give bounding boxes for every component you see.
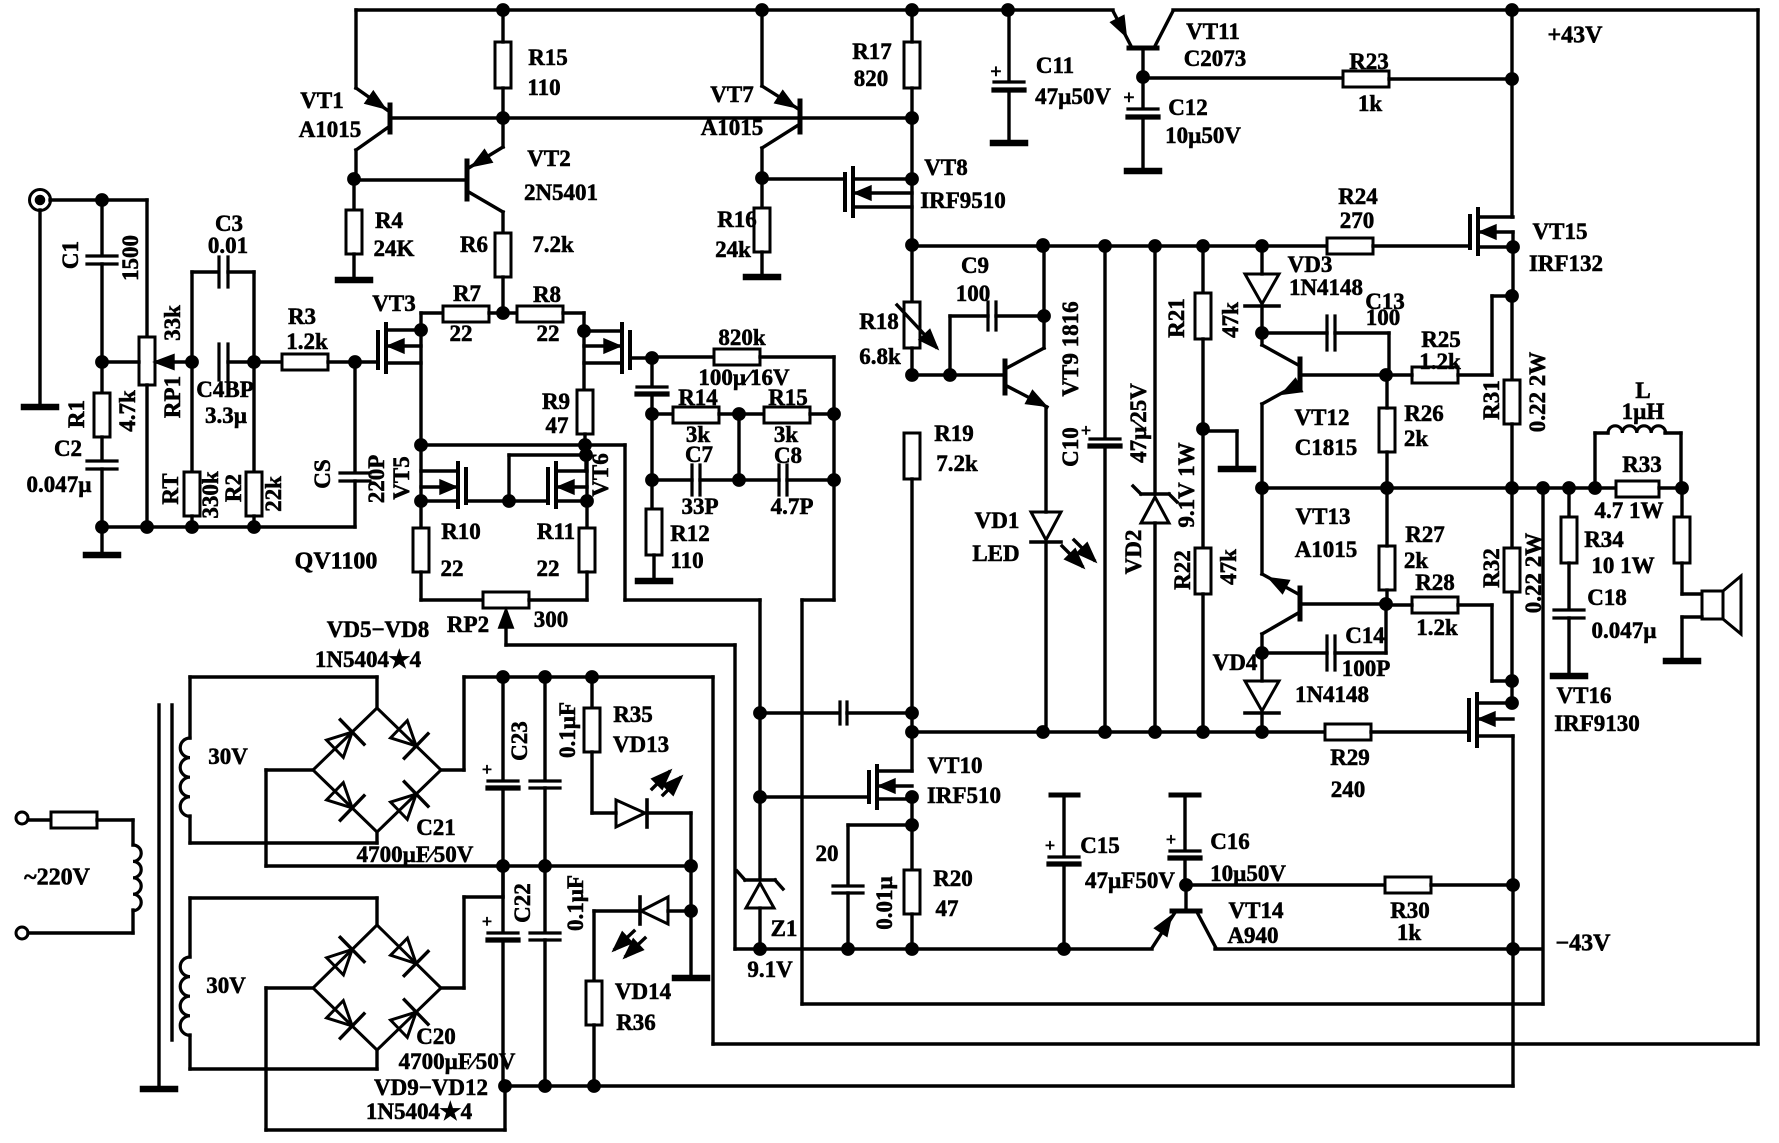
arrow VT16 [1481,714,1494,725]
arrow VT14 [1156,918,1170,935]
wire 0.01u drop [846,825,849,884]
gate bar VT3 [376,332,380,368]
svg-text:10µ50V: 10µ50V [1210,861,1286,886]
svg-text:LED: LED [972,541,1019,566]
junction [734,409,744,419]
wiper arrow RP1 [157,356,173,368]
junction [734,475,744,485]
wire gate VT3 [355,360,378,363]
wire bridge2 minus run [266,1128,505,1131]
svg-text:R4: R4 [375,208,404,233]
bridge rectifier VD9-VD12 diode TR [387,935,428,976]
arrow VT2 [474,151,491,165]
base bar VT9 [1003,361,1008,393]
wire VD13 anode [592,811,616,814]
base bar VT2 [465,161,470,199]
junction [187,357,197,367]
resistor R15b [764,407,810,423]
svg-text:20: 20 [816,841,839,866]
resistor R14 [673,407,719,423]
junction [757,173,767,183]
svg-text:C4BP: C4BP [196,377,254,402]
capacitor C3 [217,257,220,287]
svg-text:R6: R6 [460,232,488,257]
wire top +43V rail right [1173,8,1758,11]
capacitor C12 [1128,107,1158,110]
arrow VT9 [1027,392,1044,405]
wire VT13 emitter up [1260,488,1263,574]
ground C12 [1127,168,1159,175]
wire coupling right [847,711,912,714]
svg-text:VT3: VT3 [372,291,415,316]
wire VT16 drain [1510,681,1513,703]
base bar VT11 [1129,46,1157,51]
wire R28 right [1458,603,1492,606]
wire coupling left [760,711,837,714]
junction [1039,311,1049,321]
svg-text:1.2k: 1.2k [1419,349,1461,374]
resistor R28 [1412,597,1458,613]
wire VD4 top [1260,653,1263,681]
wire fb jog [832,480,835,600]
wire gnd column [689,813,692,975]
wire top +43V drive rail left [356,8,1113,11]
junction [1257,727,1267,737]
junction [579,326,589,336]
svg-text:~220V: ~220V [24,864,90,890]
wire +43V right border [1756,10,1759,1044]
svg-text:Z1: Z1 [771,916,798,941]
junction [1100,727,1110,737]
junction [1038,241,1048,251]
resistor R9 [577,390,593,434]
led arrow VD14 a [615,934,631,949]
junction [580,440,590,450]
junction [582,496,592,506]
svg-text:RP2: RP2 [447,612,489,637]
wire C12 top [1141,77,1144,107]
resistor R8 [517,306,563,322]
svg-text:47k: 47k [1218,302,1243,338]
svg-text:C16: C16 [1210,829,1250,854]
svg-text:+43V: +43V [1547,22,1603,48]
svg-text:VD9−VD12: VD9−VD12 [374,1075,488,1100]
wire C20 bottom [501,940,504,1086]
wire R28 drop [1490,605,1493,681]
channel bar VT5 [456,463,460,507]
wire C4 right leg [252,272,255,362]
led arrow VD14 b [626,941,642,956]
wire mid column [737,414,740,480]
capacitor C14 [1325,636,1328,670]
junction [498,113,508,123]
wire node to R3 [254,360,282,363]
resistor R32 [1504,548,1520,592]
wire RT bottom [190,516,193,527]
arrow VT10 [881,781,894,792]
svg-text:4.7P: 4.7P [771,494,814,519]
wire spk bottom [1682,615,1702,618]
wire R25 left [1386,373,1412,376]
wire R31 bottom [1510,424,1513,488]
wire R4 top [352,180,355,210]
wire 820k right [760,355,834,358]
wire fuse left [28,818,51,821]
junction [843,944,853,954]
wire sec2 top rail [190,896,377,899]
wire C10 top [1103,246,1106,437]
junction [498,861,508,871]
junction [647,353,657,363]
svg-text:24k: 24k [715,237,751,262]
svg-text:VD3: VD3 [1288,252,1333,277]
resistor R22 [1195,548,1211,594]
gate bar VT10 [867,772,871,802]
wire bridge1 bottom feed [375,832,378,843]
base bar VT1 [388,105,393,132]
diode VD13 [616,800,645,827]
wire R8 right lead [563,311,584,314]
junction [1198,241,1208,251]
stub VT4 drain [584,329,622,332]
svg-text:R33: R33 [1622,452,1662,477]
svg-text:100P: 100P [1342,656,1391,681]
wire C22 top [543,866,546,931]
junction [907,792,917,802]
wire RP2 left [421,598,483,601]
wire VT7 emitter [762,124,800,148]
wire 0.01u bottom [846,893,849,949]
wire VT9 collector [1005,348,1044,369]
junction [1150,241,1160,251]
ground core [143,1086,175,1093]
wire VD1 top [1044,407,1047,512]
led arrow VD14 b [626,938,645,956]
resistor R36 [586,981,602,1025]
wire R30 right [1431,883,1513,886]
wiper arrow RP2 [500,611,512,627]
wire signal node to pot [102,360,139,363]
stub VT8 mid [853,191,912,194]
arrow VT6 [560,482,573,493]
svg-text:R23: R23 [1349,49,1389,74]
svg-text:1N4148: 1N4148 [1289,275,1363,300]
wire C2 down [100,469,103,527]
junction [1038,727,1048,737]
stub VT3 source [386,361,421,364]
wire spk gnd drop [1680,617,1683,657]
stub VT6 mid [556,485,587,488]
wire core right [170,705,173,1040]
svg-text:R32: R32 [1479,548,1504,588]
bridge rectifier VD9-VD12 diode TL [323,937,364,978]
resistor R4 [346,210,362,254]
transistor VT7 [762,86,800,110]
capacitor C20 [488,931,518,934]
svg-text:C7: C7 [685,442,713,467]
junction [686,906,696,916]
wire mirror gate drop [507,455,510,501]
wire fuse right [97,818,133,821]
junction [829,409,839,419]
diode VD4 [1245,681,1279,711]
resistor R26 [1379,408,1395,452]
zener VD2 [1141,492,1169,496]
svg-text:C15: C15 [1080,833,1120,858]
wire 100u bottom [650,394,653,414]
svg-text:IRF9510: IRF9510 [920,188,1006,213]
wire sec1 bottom [190,841,377,844]
wire R2 top [252,362,255,472]
gate bar VT4 [628,332,632,368]
svg-text:110: 110 [527,75,560,100]
junction [97,522,107,532]
wire R32 top [1510,488,1513,548]
junction [1590,483,1600,493]
svg-text:47: 47 [936,896,959,921]
wire VT12 emitter down [1260,404,1263,488]
wire VT8 column [910,118,913,245]
resistor R27 [1379,546,1395,590]
svg-text:R24: R24 [1338,184,1378,209]
svg-text:47µ∕25V: 47µ∕25V [1126,383,1151,463]
wire C16 lower [1183,858,1186,885]
junction [416,496,426,506]
junction [1257,483,1267,493]
wire VT9 collector up [1042,245,1045,348]
wire cascode out drop [623,445,626,600]
wire R29 to VT16 gate [1371,730,1467,733]
speaker [1702,591,1723,619]
led arrow VD1 b [1074,540,1094,560]
wire VT14 base stem [1184,885,1187,909]
svg-text:0.1µF: 0.1µF [555,702,580,758]
wire VT2 emitter up [501,118,504,147]
wire C7 left [652,478,692,481]
ground C11 [993,140,1025,147]
wire power block right edge [711,677,714,1044]
wire VT12 base [1302,373,1386,376]
wire bias bus 245 [912,244,1327,247]
junction [755,708,765,718]
wire R31 top [1510,296,1513,380]
wire R17 bottom [910,88,913,118]
junction [1381,370,1391,380]
wire left column [650,414,653,509]
stub VT6 bottom [556,499,587,502]
svg-text:0.22 2W: 0.22 2W [1521,533,1546,614]
wire L stub left [1595,431,1608,434]
svg-text:R28: R28 [1415,570,1455,595]
svg-text:1k: 1k [1397,920,1422,945]
bridge rectifier VD5-VD8 diode BL [323,779,364,820]
wire bridge1 plus rise [462,677,465,770]
resistor RT [184,472,200,516]
wire C14 right [1335,651,1386,654]
arrow VT13 [1271,579,1288,592]
wire RP1 bottom [145,385,148,527]
stub VT4 source [584,361,622,364]
wire bridge1 top feed [375,677,378,708]
arrow VT12 [1284,380,1301,393]
diode VD3 [1245,274,1279,304]
wire wiper drop [733,645,736,949]
wire R25 right [1458,373,1492,376]
svg-text:4.7 1W: 4.7 1W [1595,498,1664,523]
wire R3 to gate node [328,360,355,363]
wire C7-C8 [700,478,779,481]
junction [907,174,917,184]
svg-text:3.3µ: 3.3µ [205,403,247,428]
junction [504,496,514,506]
junction [1181,880,1191,890]
svg-text:RP1: RP1 [160,376,185,418]
junction [1507,483,1517,493]
input jack [30,190,51,211]
capacitor C23 [530,779,560,782]
svg-text:110: 110 [670,548,703,573]
wire R26 bottom [1385,452,1388,488]
wire C16 upper [1183,795,1186,849]
svg-text:C1: C1 [58,241,83,269]
svg-text:R12: R12 [670,521,710,546]
wire R7 right lead [489,311,517,314]
led arrow VD14 a [615,931,634,949]
junction [907,113,917,123]
svg-text:R15: R15 [768,385,808,410]
wire R18 top [910,245,913,302]
wire C11 bottom [1007,90,1010,140]
led arrow VD13 b [664,778,680,794]
wire RP2 wiper stem [504,613,507,645]
svg-text:22: 22 [450,321,473,346]
junction [587,672,597,682]
capacitor C18 [1554,608,1584,611]
base bar VT14 [1172,909,1200,914]
resistor R6 [495,233,511,277]
svg-text:330k: 330k [198,471,223,519]
resistor 4.7 output [1674,517,1690,563]
junction [1508,944,1518,954]
wire C10 bottom [1103,446,1106,732]
wire R23 right [1389,77,1512,80]
led arrow VD13 a [653,772,669,788]
stub VT4 mid [584,344,622,347]
svg-text:4700µF∕50V: 4700µF∕50V [399,1049,516,1074]
capacitor C22 [530,931,560,934]
wire feedback run [802,1002,1543,1005]
stub VT5 bottom [421,499,458,502]
svg-text:10µ50V: 10µ50V [1165,123,1241,148]
capacitor C11 [994,80,1024,83]
wire output bus 2 [1659,486,1682,489]
junction [500,1081,510,1091]
svg-text:9.1V 1W: 9.1V 1W [1174,442,1199,527]
junction [498,308,508,318]
svg-text:R35: R35 [613,702,653,727]
arrow VT3 [390,341,403,352]
junction [907,820,917,830]
wire C15 upper [1062,795,1065,855]
wire VT13 collector [1262,612,1300,634]
wire VT11 to R23 [1143,76,1343,79]
capacitor 100u [637,385,667,388]
wire sec2 top lead [188,898,191,957]
junction [187,522,197,532]
wire R14 left [652,412,673,415]
resistor R20 [904,870,920,914]
junction [1257,648,1267,658]
capacitor C2 [87,459,117,462]
svg-text:0.22 2W: 0.22 2W [1525,352,1550,433]
svg-text:820k: 820k [718,325,766,350]
svg-text:VT1: VT1 [300,88,343,113]
junction [1257,241,1267,251]
wire VT2 base [354,178,467,181]
svg-text:1N4148: 1N4148 [1295,682,1369,707]
svg-text:R29: R29 [1330,745,1370,770]
wire R19 bottom [910,479,913,732]
wire Z1 lower [758,908,761,949]
wire bridge2 bottom feed [375,1050,378,1069]
stub VT16 source [1477,734,1513,737]
svg-text:R22: R22 [1170,550,1195,590]
junction [907,944,917,954]
svg-text:R26: R26 [1404,401,1444,426]
wire R28 jog [1492,679,1512,682]
wire VT7 collector [760,10,763,86]
svg-text:300: 300 [534,607,569,632]
wire bias line [392,116,912,119]
svg-text:C12: C12 [1168,95,1208,120]
resistor R23 [1343,71,1389,87]
transistor VT11 [1113,11,1131,46]
svg-text:A1015: A1015 [299,117,362,142]
wire L stub right [1665,431,1681,434]
svg-text:C8: C8 [774,443,802,468]
wire -43V bus [735,947,1152,950]
junction [416,325,426,335]
wire VT15 drain column [1510,10,1513,217]
capacitor C9 [986,302,989,330]
wire RP2 right [529,598,587,601]
junction [589,1081,599,1091]
transistor VT12 emitter [1262,383,1300,404]
wire VT1 to node [354,150,357,179]
wire VT10 source down [910,799,913,870]
junction [755,792,765,802]
junction [350,357,360,367]
wire C13 left [1262,331,1327,334]
wire C23 bottom [543,788,546,866]
resistor R10 [413,528,429,572]
svg-text:1µH: 1µH [1622,399,1665,424]
wire C22 bottom [543,940,546,1086]
capacitor C10 [1090,437,1120,440]
svg-text:CS: CS [310,459,335,488]
wire VT6 column [585,455,588,528]
junction [829,475,839,485]
ground R12 [638,578,670,585]
junction [1507,74,1517,84]
svg-text:47: 47 [546,413,569,438]
svg-text:C2: C2 [54,436,82,461]
wire VT11 collector [1155,11,1173,46]
wire tap drop [1235,431,1238,466]
junction [1507,5,1517,15]
wire bridge2 plus [441,986,464,989]
junction [249,357,259,367]
